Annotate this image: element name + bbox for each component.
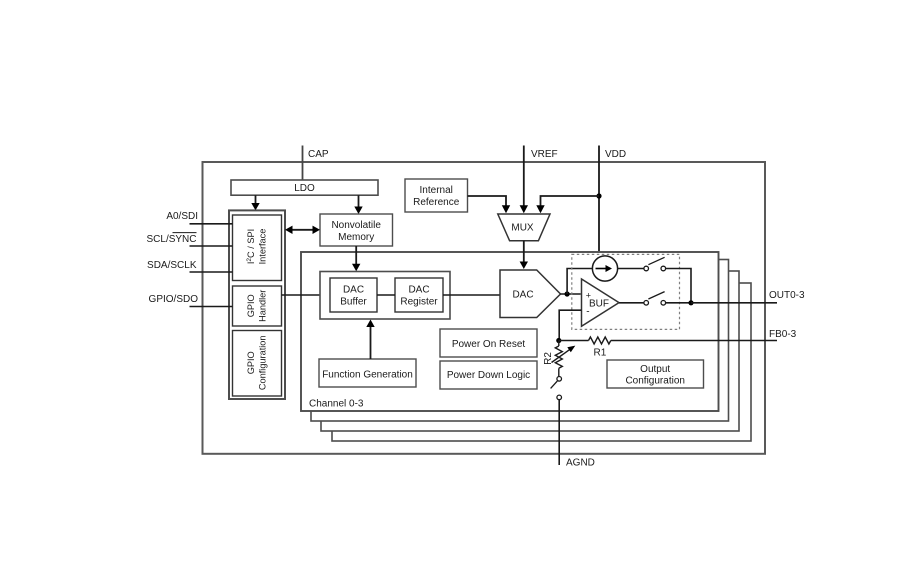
dac DAC pentagon [500, 270, 561, 318]
node VDD junction [596, 193, 601, 198]
svg-text:Function Generation: Function Generation [322, 369, 413, 380]
block Nonvolatile Memory [320, 214, 393, 246]
svg-text:GPIO: GPIO [246, 351, 256, 374]
svg-text:VREF: VREF [531, 149, 558, 160]
pin CAP wire [302, 146, 304, 181]
pin SDA/SCLK label [147, 260, 197, 271]
pin SCL/SYNC wire [190, 245, 233, 247]
wire FB0-3 [611, 340, 777, 342]
wire DAC output to BUF [561, 293, 581, 295]
pin GPIO/SDO label [149, 294, 199, 305]
svg-text:Handler: Handler [258, 290, 268, 322]
chip outer box [203, 162, 766, 454]
block Output Configuration [607, 360, 704, 388]
svg-text:LDO: LDO [294, 183, 315, 194]
resistor R1 [559, 337, 611, 359]
wire Internal Reference to MUX (arrow) [468, 196, 511, 213]
pin SCL/SYNC label (SYNC overlined) [146, 233, 196, 245]
svg-text:DAC: DAC [343, 285, 364, 296]
op-amp BUF [582, 279, 620, 326]
channel box 2 [321, 271, 739, 431]
svg-text:R2: R2 [543, 352, 554, 365]
mux MUX trapezoid [498, 214, 550, 241]
svg-text:Register: Register [400, 297, 438, 308]
svg-text:Output: Output [640, 364, 670, 375]
svg-text:Power Down Logic: Power Down Logic [447, 370, 530, 381]
svg-text:Buffer: Buffer [340, 297, 367, 308]
wire switch 1 to output node [666, 269, 691, 303]
wire DAC Register to DAC [443, 294, 500, 296]
svg-text:Nonvolatile: Nonvolatile [331, 220, 381, 231]
block Power Down Logic [440, 361, 537, 389]
svg-text:GPIO/SDO: GPIO/SDO [149, 294, 199, 305]
svg-text:MUX: MUX [511, 223, 534, 234]
pin CAP label [308, 149, 329, 160]
block GPIO Configuration [233, 331, 282, 397]
svg-text:Power On Reset: Power On Reset [452, 339, 526, 350]
dotted output stage box [572, 254, 680, 329]
svg-text:Internal: Internal [420, 185, 453, 196]
svg-text:I2C / SPI: I2C / SPI [246, 229, 256, 264]
wire I2C/SPI to NVM double arrow [285, 226, 320, 234]
regulator LDO [231, 180, 378, 195]
pin AGND label [566, 458, 595, 469]
block GPIO Handler [233, 286, 282, 326]
pin VDD wire [598, 146, 600, 252]
svg-text:Configuration: Configuration [258, 335, 268, 390]
DAC buffer group box [320, 272, 450, 320]
pin A0/SDI wire [190, 223, 233, 225]
pin GPIO/SDO wire [190, 306, 233, 308]
wire NVM down to DAC buffer group (arrow) [352, 246, 360, 271]
pin VDD label [605, 149, 626, 160]
svg-text:SDA/SCLK: SDA/SCLK [147, 260, 197, 271]
wire MUX to DAC (arrow) [520, 241, 528, 269]
svg-text:DAC: DAC [512, 290, 533, 301]
wire LDO to interface group (arrow) [251, 195, 259, 210]
wire BUF output to switch 2 [619, 302, 644, 304]
svg-text:Configuration: Configuration [625, 376, 684, 387]
node DAC output junction [565, 291, 570, 296]
pin FB0-3 label [769, 329, 797, 340]
block DAC Buffer [330, 278, 377, 312]
svg-text:SCL/SYNC: SCL/SYNC [146, 234, 196, 245]
svg-text:BUF: BUF [589, 299, 609, 310]
node feedback junction [556, 338, 561, 343]
svg-text:Channel 0-3: Channel 0-3 [309, 398, 364, 409]
svg-text:OUT0-3: OUT0-3 [769, 290, 805, 301]
wire VDD branch to MUX with arrow [536, 196, 599, 213]
svg-text:VDD: VDD [605, 149, 626, 160]
wire switch 2 to output node [666, 302, 691, 304]
block I2C/SPI Interface [233, 215, 282, 281]
label Channel 0-3 [309, 398, 364, 409]
wire AGND [558, 400, 560, 465]
block Internal Reference [405, 179, 468, 212]
block DAC Register [395, 278, 443, 312]
svg-text:R1: R1 [594, 348, 607, 359]
wire OUT0-3 [691, 302, 777, 304]
channel box 3 (back) [332, 283, 751, 441]
svg-text:Interface: Interface [258, 229, 268, 265]
block Power On Reset [440, 329, 537, 357]
svg-text:FB0-3: FB0-3 [769, 329, 797, 340]
wire current source to switch 1 [618, 268, 644, 270]
pin A0/SDI label [166, 211, 198, 222]
block Function Generation [319, 359, 416, 387]
channel box 0 (front) [301, 252, 719, 411]
switch S3 (to AGND) [551, 377, 562, 400]
pin VREF wire with arrow into MUX [520, 146, 528, 214]
switch S1 (current source) [644, 257, 666, 271]
wire DAC Buffer to DAC Register [377, 294, 395, 296]
svg-text:DAC: DAC [408, 285, 429, 296]
wire LDO to nonvolatile memory (arrow) [354, 195, 362, 214]
svg-text:Memory: Memory [338, 232, 374, 243]
node output junction [688, 300, 693, 305]
switch S2 (output) [644, 292, 666, 306]
pin SDA/SCLK wire [190, 271, 233, 273]
pin VREF label [531, 149, 558, 160]
svg-text:AGND: AGND [566, 458, 595, 469]
wire GPIO Handler to DAC Buffer [282, 294, 331, 296]
interface group box [229, 210, 285, 399]
svg-text:CAP: CAP [308, 149, 329, 160]
svg-text:GPIO: GPIO [246, 294, 256, 317]
wire junction up to current source [567, 269, 592, 295]
pin OUT0-3 label [769, 290, 805, 301]
svg-text:A0/SDI: A0/SDI [166, 211, 198, 222]
svg-text:Reference: Reference [413, 197, 460, 208]
resistor R2 (variable) [543, 341, 575, 377]
wire BUF minus input feedback [559, 310, 581, 340]
channel box 1 [311, 260, 729, 422]
current source circle [592, 256, 617, 281]
wire Function Generation up to DAC buffer group (arrow) [366, 320, 374, 360]
